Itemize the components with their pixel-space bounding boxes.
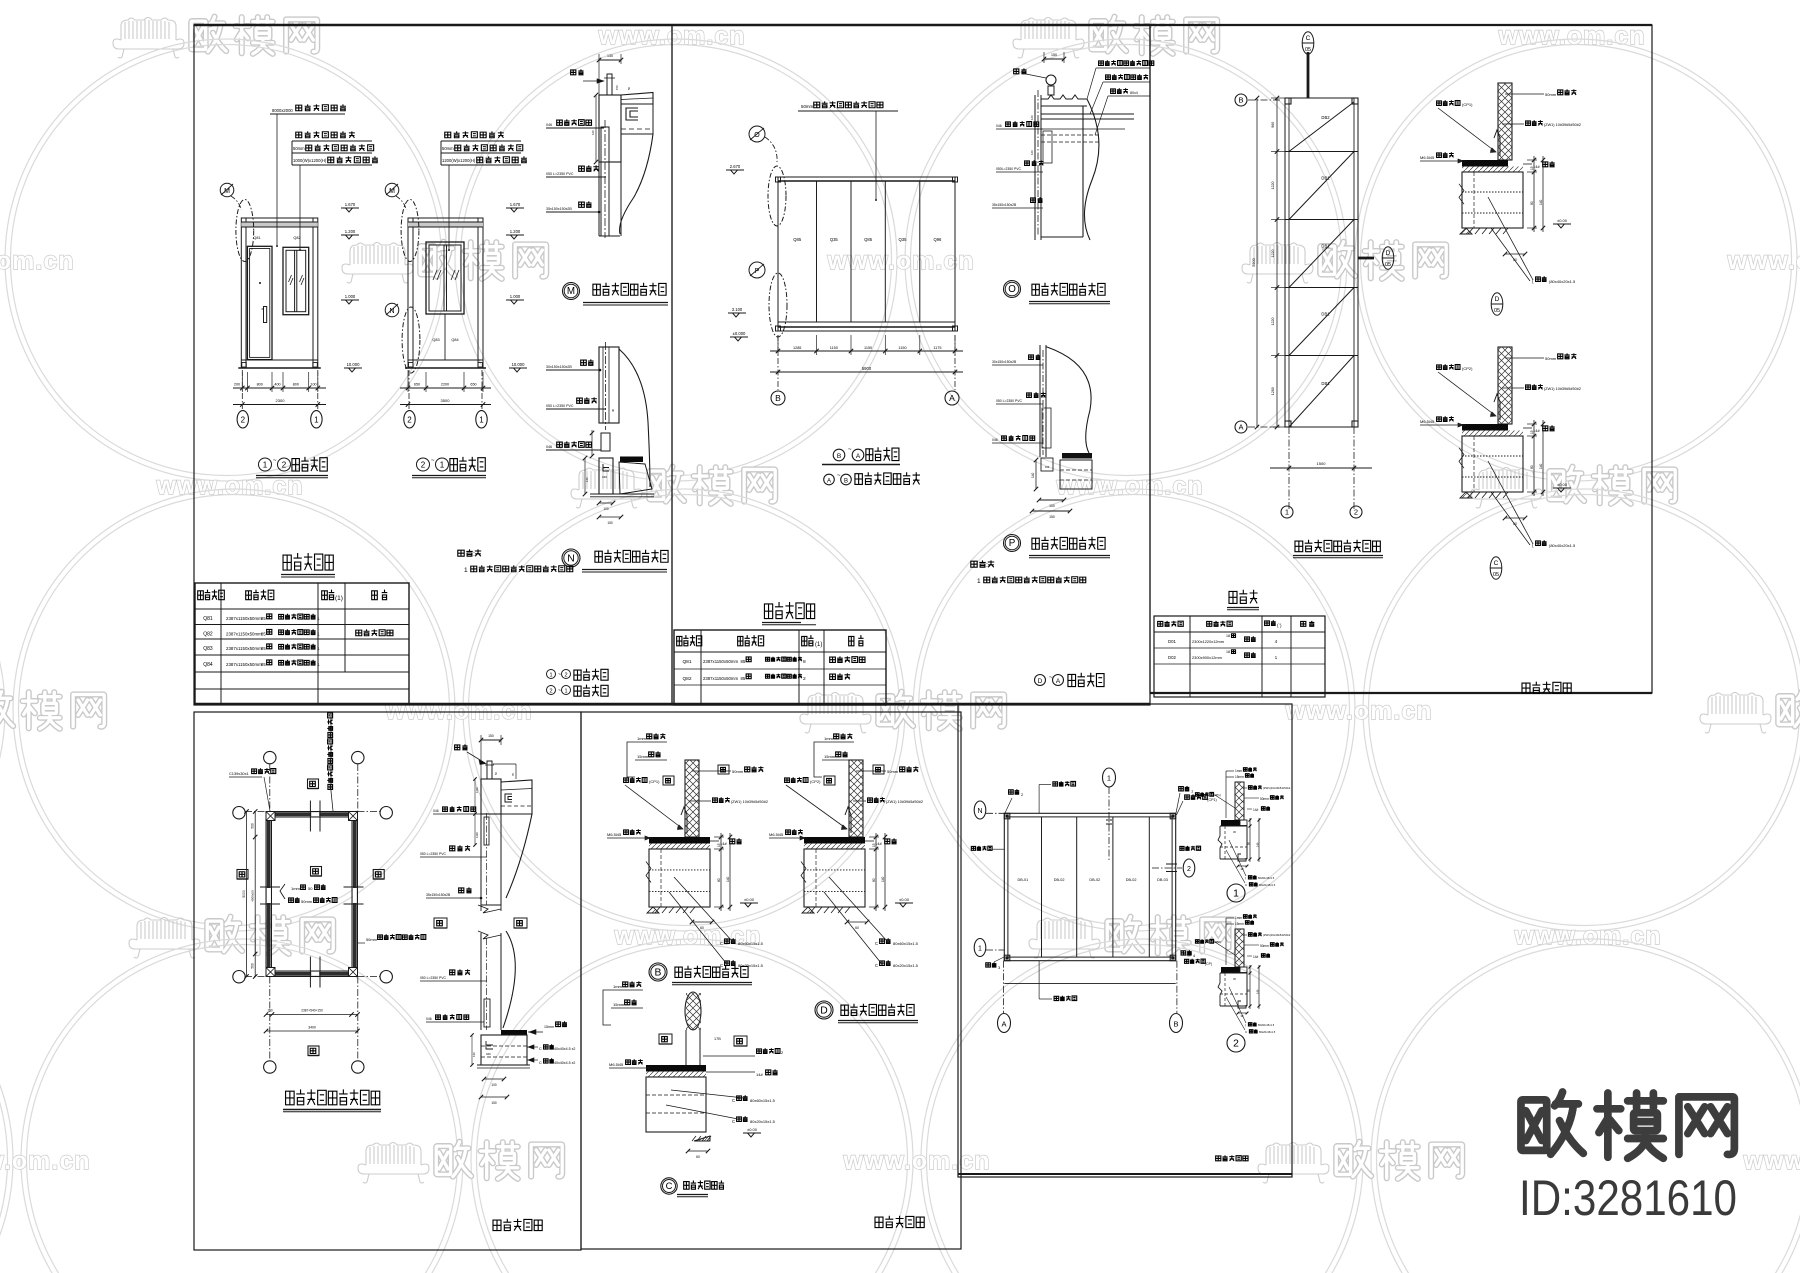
svg-text:1.200: 1.200: [510, 229, 521, 234]
panel2: corner downpipe detail P (bottom right): [992, 345, 1110, 558]
svg-text:D02: D02: [1168, 655, 1176, 660]
svg-text:Q82: Q82: [203, 632, 213, 638]
svg-text:Q85: Q85: [793, 237, 802, 242]
svg-text:5000: 5000: [242, 890, 246, 898]
svg-text:50mm: 50mm: [887, 769, 899, 774]
svg-text:60: 60: [700, 926, 704, 930]
svg-text:(`): (`): [1277, 623, 1282, 628]
panel6: leader labels: [1009, 789, 1020, 794]
svg-text:D01: D01: [1168, 639, 1176, 644]
svg-text:15: 15: [1530, 166, 1534, 170]
svg-text:100: 100: [603, 507, 609, 511]
svg-text:DB-02: DB-02: [1089, 878, 1100, 882]
svg-text:60: 60: [855, 926, 859, 930]
svg-text:85: 85: [261, 632, 266, 637]
svg-text:(CP): (CP): [1205, 962, 1212, 966]
svg-text:140: 140: [726, 876, 730, 882]
svg-text:B: B: [1173, 1020, 1178, 1029]
svg-text:40x40x4.5 x2: 40x40x4.5 x2: [554, 1061, 575, 1065]
panel1: detail M corner post: [599, 95, 621, 162]
node detail at 1462,160: [1420, 83, 1581, 262]
svg-text:M6.5l45: M6.5l45: [1420, 155, 1435, 160]
svg-text:(CP2): (CP2): [1462, 366, 1473, 371]
svg-text:~: ~: [431, 458, 435, 464]
svg-text:3.100: 3.100: [732, 307, 743, 312]
svg-text:1200: 1200: [475, 832, 479, 838]
panel1: corner downpipe detail M (top right): [546, 54, 668, 305]
svg-text:C: C: [539, 1061, 542, 1065]
panel4: thick wall bands: [267, 821, 271, 968]
svg-text:3500: 3500: [441, 398, 451, 403]
svg-text:15mm: 15mm: [613, 1002, 625, 1007]
panel2: detail P base: [1062, 453, 1092, 459]
svg-text:1: 1: [1107, 774, 1111, 783]
svg-text:120: 120: [591, 130, 595, 135]
svg-text:500: 500: [251, 963, 255, 969]
svg-text:35x150x150x2B: 35x150x150x2B: [546, 207, 572, 211]
svg-text:15mm: 15mm: [637, 754, 649, 759]
svg-text:O: O: [1008, 284, 1016, 295]
svg-text:15mm: 15mm: [1235, 775, 1244, 779]
svg-text:B: B: [775, 393, 781, 403]
svg-text:1: 1: [1285, 508, 1289, 517]
panel1: detail callout M: [220, 183, 234, 197]
svg-text:DB1: DB1: [1321, 312, 1330, 317]
svg-text:140: 140: [1539, 463, 1543, 469]
svg-text:2: 2: [241, 415, 246, 424]
svg-text:DB2: DB2: [1321, 115, 1330, 120]
svg-text:050 L=2350 PVC: 050 L=2350 PVC: [420, 852, 446, 856]
svg-text:1: 1: [440, 461, 445, 470]
svg-text:N: N: [977, 808, 982, 815]
svg-text:DB-02: DB-02: [1054, 878, 1065, 882]
svg-text:2: 2: [421, 461, 426, 470]
svg-text:2387x1150x50mm: 2387x1150x50mm: [226, 662, 262, 667]
svg-text:(ZW1)10x39x54x50x2: (ZW1)10x39x54x50x2: [1263, 933, 1291, 937]
svg-text:1mm: 1mm: [824, 736, 834, 741]
svg-text:1mm: 1mm: [613, 984, 623, 989]
panel2: dims below: [770, 350, 963, 352]
svg-text:B: B: [844, 479, 848, 485]
svg-text:15mm: 15mm: [1235, 922, 1244, 926]
svg-text:2300: 2300: [276, 398, 286, 403]
svg-text:800: 800: [257, 383, 263, 387]
svg-text:Q82: Q82: [293, 236, 300, 240]
svg-text:8: 8: [803, 659, 806, 665]
svg-text:1200: 1200: [475, 787, 479, 793]
svg-text:1150: 1150: [830, 346, 838, 350]
svg-text:M6.5l45: M6.5l45: [769, 832, 784, 837]
svg-text:(CP1): (CP1): [649, 779, 660, 784]
svg-text:1000(W)x1200(H): 1000(W)x1200(H): [293, 158, 327, 163]
svg-text:M6.5l45: M6.5l45: [1420, 419, 1435, 424]
svg-text:DB1: DB1: [1321, 176, 1330, 181]
svg-text:500: 500: [251, 823, 255, 829]
svg-text:1: 1: [479, 415, 484, 424]
svg-text:50mm: 50mm: [801, 104, 814, 109]
svg-text:C: C: [732, 1098, 735, 1103]
svg-text:Q84: Q84: [203, 662, 213, 668]
panel5: node detail C door sill: [603, 981, 784, 1196]
svg-text:150: 150: [607, 521, 613, 525]
svg-text:046: 046: [426, 1017, 432, 1021]
panel4: boxed labels: [308, 779, 319, 789]
panel4: dims: [254, 812, 256, 977]
svg-text:Q96: Q96: [933, 237, 942, 242]
svg-text:140: 140: [1539, 199, 1543, 205]
svg-text:N: N: [567, 553, 574, 564]
panel2: corner downpipe detail O (top right): [992, 52, 1154, 304]
svg-text:80x60x15x1.5: 80x60x15x1.5: [738, 941, 764, 946]
svg-text:35x150x150x2B: 35x150x150x2B: [426, 893, 451, 897]
svg-text:D: D: [820, 1005, 827, 1016]
svg-text:DB-03: DB-03: [1157, 878, 1168, 882]
svg-text:(ZW1) 10#39#5#50#2: (ZW1) 10#39#5#50#2: [1544, 123, 1581, 127]
svg-text:50mm: 50mm: [1545, 92, 1557, 97]
svg-text:A: A: [856, 453, 861, 460]
svg-text:1mm: 1mm: [1235, 769, 1242, 773]
svg-text:1: 1: [549, 673, 552, 679]
svg-text:100: 100: [1049, 504, 1055, 508]
svg-text:50mm: 50mm: [442, 146, 454, 151]
svg-text:100: 100: [310, 383, 316, 387]
svg-text:80: 80: [872, 878, 876, 882]
svg-text:1mm: 1mm: [1235, 916, 1242, 920]
svg-text:1: 1: [1233, 888, 1239, 899]
panel1: dims below elevation A: [233, 387, 326, 389]
svg-text:Q84: Q84: [451, 338, 458, 342]
panel1: detail N bottom dims: [599, 502, 613, 504]
panel4: section upper body: [481, 779, 501, 905]
svg-text:(CP1): (CP1): [1462, 102, 1473, 107]
panel1: dims below elevation B: [400, 387, 491, 389]
panel2: callouts O P: [749, 126, 765, 142]
panel1: door elevation 1-2: [220, 104, 378, 477]
svg-text:120: 120: [1030, 115, 1034, 120]
svg-text:2: 2: [407, 415, 412, 424]
svg-text:1: 1: [263, 461, 268, 470]
svg-text:150: 150: [1049, 515, 1055, 519]
svg-text:(ZW1)10x39x54x50x2: (ZW1)10x39x54x50x2: [1263, 786, 1291, 790]
svg-text:046: 046: [433, 809, 439, 813]
panel3: sheet title: [1522, 682, 1571, 693]
svg-text:2200: 2200: [441, 383, 449, 387]
svg-text:150: 150: [267, 1009, 273, 1013]
svg-text:050 L=2350 PVC: 050 L=2350 PVC: [546, 404, 574, 408]
svg-text:50mm: 50mm: [293, 146, 305, 151]
panel1: title 1-2 elevation: [259, 458, 272, 471]
svg-text:140: 140: [585, 477, 589, 482]
svg-text:~: ~: [558, 688, 561, 694]
svg-text:(1): (1): [815, 642, 822, 648]
svg-text:8000x2000: 8000x2000: [272, 108, 293, 113]
panel4: section base: [501, 1030, 527, 1035]
svg-text:50mm: 50mm: [732, 769, 744, 774]
node detail at 1462,424: [1420, 347, 1581, 526]
panel5: label D title: [815, 1001, 833, 1019]
svg-text:50mm: 50mm: [366, 937, 377, 942]
svg-text:14#: 14#: [1253, 955, 1259, 959]
svg-text:18: 18: [1226, 650, 1230, 654]
svg-text:1: 1: [317, 662, 320, 668]
svg-text:C: C: [666, 1180, 673, 1191]
svg-text:M: M: [567, 286, 575, 297]
svg-text:17B: 17B: [714, 1037, 721, 1041]
svg-text:50mm: 50mm: [1260, 797, 1269, 801]
svg-text:1150: 1150: [898, 346, 906, 350]
svg-text:B: B: [655, 967, 662, 978]
svg-text:50mm: 50mm: [1545, 356, 1557, 361]
svg-text:1150: 1150: [864, 346, 872, 350]
svg-text:Q83: Q83: [432, 338, 439, 342]
svg-text:046: 046: [546, 123, 552, 127]
svg-text:2: 2: [549, 689, 552, 695]
svg-text:050 L=2350 PVC: 050 L=2350 PVC: [546, 172, 574, 176]
panel2: wall panel material table: [674, 602, 886, 705]
svg-text:140: 140: [472, 1052, 476, 1057]
panel1: label M detail title: [563, 283, 580, 300]
panel1: label N detail title: [562, 549, 580, 567]
svg-text:046: 046: [1045, 465, 1050, 469]
svg-text:2: 2: [803, 676, 806, 682]
svg-text:150: 150: [488, 734, 494, 738]
panel4: corner connection plan: [229, 712, 426, 1112]
svg-text:Q35: Q35: [830, 237, 839, 242]
panel2: detail O right labels: [1099, 60, 1154, 65]
panel6: bottom lines and label: [1004, 982, 1175, 984]
svg-text:120: 120: [1030, 150, 1034, 155]
svg-text:80: 80: [1530, 465, 1534, 469]
svg-text:C: C: [732, 1119, 735, 1124]
svg-text:60: 60: [696, 1155, 700, 1159]
panel1: wall panel material table: [195, 553, 409, 704]
svg-text:~: ~: [273, 458, 277, 464]
svg-text:2: 2: [564, 673, 567, 679]
svg-text:1280: 1280: [1271, 387, 1275, 395]
panel1: callouts M N: [385, 183, 399, 197]
svg-text:B: B: [837, 453, 841, 460]
panel6: corner posts: [1004, 813, 1010, 819]
svg-text:05: 05: [1493, 572, 1499, 578]
panel1: door leaf: [247, 246, 272, 359]
svg-text:1mm: 1mm: [291, 886, 301, 891]
svg-text:2387x1150x50mm: 2387x1150x50mm: [703, 659, 738, 664]
svg-text:2300x1220x12mm: 2300x1220x12mm: [1192, 639, 1224, 644]
svg-text:2: 2: [1187, 866, 1191, 873]
svg-text:1.670: 1.670: [510, 202, 521, 207]
svg-text:2387x1150x50mm: 2387x1150x50mm: [226, 616, 262, 621]
svg-text:05: 05: [1385, 262, 1391, 268]
svg-text:1: 1: [564, 689, 567, 695]
svg-text:D: D: [1038, 678, 1043, 685]
svg-text:(1): (1): [335, 595, 343, 602]
svg-text:M6.5l45: M6.5l45: [609, 1062, 624, 1067]
svg-text:~: ~: [558, 672, 561, 678]
svg-text:P: P: [1009, 538, 1016, 549]
svg-text:Q82: Q82: [682, 676, 691, 682]
svg-text:A: A: [1001, 1020, 1006, 1029]
svg-text:(ZW1) 10#39#5#50#2: (ZW1) 10#39#5#50#2: [886, 800, 923, 804]
svg-text:140: 140: [1256, 842, 1260, 847]
svg-text:150: 150: [1051, 53, 1057, 57]
svg-text:85: 85: [261, 662, 266, 667]
svg-text:50mm: 50mm: [301, 899, 313, 904]
svg-text:C: C: [539, 1047, 542, 1051]
panel2: roof profile zigzag: [1041, 95, 1087, 106]
svg-text:14#: 14#: [1253, 808, 1259, 812]
node detail at 649,837: [607, 733, 768, 968]
svg-text:1220: 1220: [1271, 318, 1275, 326]
svg-text:1: 1: [317, 616, 320, 622]
svg-text:15mm: 15mm: [544, 1025, 554, 1029]
svg-text:046: 046: [546, 445, 552, 449]
panel4: mid boxed labels: [434, 918, 447, 928]
panel1: window: [283, 247, 309, 314]
svg-text:10.000: 10.000: [347, 362, 360, 367]
svg-text:200: 200: [234, 383, 240, 387]
svg-text:5900: 5900: [1252, 258, 1256, 266]
svg-text:Q81: Q81: [203, 616, 213, 622]
svg-text:2: 2: [282, 461, 287, 470]
site logo text bottom right: [1521, 1092, 1734, 1158]
svg-text:80x60x15x1.5: 80x60x15x1.5: [1258, 876, 1275, 880]
panel6: small caption: [1216, 1155, 1248, 1161]
panel4: corner posts: [266, 812, 275, 821]
panel6: mini node detail 1: [1195, 767, 1290, 1161]
svg-text:046: 046: [602, 475, 607, 479]
svg-text:35x150x150x2B: 35x150x150x2B: [992, 203, 1017, 207]
svg-text:±0.00: ±0.00: [1557, 482, 1568, 487]
panel1: corner downpipe detail N (bottom right): [546, 342, 668, 572]
svg-text:85: 85: [741, 676, 746, 681]
panel3: floor plan strip with trusses: [1235, 32, 1394, 558]
svg-text:18: 18: [1226, 634, 1230, 638]
svg-text:(: (: [1245, 876, 1246, 880]
svg-text:C: C: [1494, 560, 1499, 567]
svg-text:046: 046: [486, 1052, 491, 1056]
svg-text:M6.5l45: M6.5l45: [607, 832, 622, 837]
svg-text:15: 15: [1530, 430, 1534, 434]
panel4: axis lines and circles: [245, 811, 266, 813]
svg-text:05: 05: [1494, 308, 1500, 314]
svg-text:Q85: Q85: [864, 237, 873, 242]
svg-text:A: A: [949, 393, 955, 403]
svg-text::: :: [986, 562, 988, 569]
panel5: label B title: [649, 963, 667, 981]
svg-text:C: C: [1306, 35, 1311, 42]
svg-text:50: 50: [308, 886, 313, 891]
panel2: D-A elevation note bottom: [1035, 673, 1105, 687]
svg-text:80x4: 80x4: [1130, 91, 1138, 95]
svg-text:140: 140: [1256, 989, 1260, 994]
svg-text:1mm: 1mm: [637, 736, 647, 741]
svg-text:30x150x150x2B: 30x150x150x2B: [546, 365, 572, 369]
svg-text:130: 130: [607, 54, 613, 58]
panel3: floor board table: [1154, 590, 1325, 697]
panel4: sheet title: [493, 1219, 542, 1231]
svg-text:D: D: [1386, 250, 1391, 257]
svg-text:1285: 1285: [793, 346, 801, 350]
svg-text:80x60x15x1.5: 80x60x15x1.5: [893, 941, 919, 946]
svg-text:(CP2): (CP2): [810, 779, 821, 784]
svg-text:1: 1: [317, 646, 320, 652]
svg-text:14#: 14#: [756, 1072, 763, 1077]
svg-text:80x20x15x1.5: 80x20x15x1.5: [893, 963, 919, 968]
svg-text:)80x40x20x1.5: )80x40x20x1.5: [1549, 543, 1576, 548]
svg-text:85: 85: [261, 646, 266, 651]
svg-text:ID:3281610: ID:3281610: [1519, 1170, 1737, 1226]
svg-text:2387x1150x50mm: 2387x1150x50mm: [226, 646, 262, 651]
svg-text:80x60x15x1.5: 80x60x15x1.5: [1258, 1023, 1275, 1027]
svg-text:046: 046: [996, 124, 1002, 128]
svg-text:1.000: 1.000: [345, 294, 356, 299]
panel1: title 2-1 elevation: [417, 458, 430, 471]
panel4: plan title: [286, 1089, 380, 1104]
svg-text:1220: 1220: [1271, 250, 1275, 258]
svg-text:A: A: [1238, 423, 1243, 432]
svg-text:046: 046: [992, 438, 998, 442]
svg-text:70: 70: [511, 772, 515, 776]
svg-text:650: 650: [470, 383, 476, 387]
svg-text:1.000: 1.000: [510, 294, 521, 299]
svg-text:400: 400: [274, 383, 280, 387]
svg-text:85: 85: [741, 659, 746, 664]
panel1: bottom-right elevation list: [547, 669, 609, 696]
panel5: sheet title: [875, 1216, 924, 1228]
svg-text:15mm: 15mm: [824, 754, 836, 759]
svg-text:DB1: DB1: [1321, 381, 1330, 386]
svg-text:150: 150: [615, 85, 619, 90]
svg-text:(ZW1) 10#39#5#50#2: (ZW1) 10#39#5#50#2: [1544, 387, 1581, 391]
svg-text:80: 80: [717, 878, 721, 882]
svg-text::: :: [473, 551, 475, 558]
svg-text:40: 40: [611, 408, 615, 412]
svg-text:80x20x15x1.5: 80x20x15x1.5: [1259, 883, 1276, 887]
svg-text:1: 1: [978, 946, 982, 953]
svg-text:15: 15: [717, 843, 721, 847]
svg-text:C: C: [875, 963, 878, 968]
svg-text:2: 2: [1233, 1038, 1239, 1049]
panel1: central window elevation B: [426, 242, 464, 314]
svg-text:±0.00: ±0.00: [899, 897, 910, 902]
svg-text:±0.00: ±0.00: [744, 897, 755, 902]
svg-text:50: 50: [627, 86, 631, 90]
svg-text:2387+540+150: 2387+540+150: [301, 1009, 323, 1013]
svg-text:2387x1150x50mm: 2387x1150x50mm: [226, 632, 262, 637]
panel3: bottom dims + axis: [1288, 427, 1290, 510]
svg-text:1: 1: [317, 632, 320, 638]
panel6: axis lines/circles: [986, 812, 1004, 814]
svg-text:80: 80: [1530, 201, 1534, 205]
svg-text:(ZW1) 10#39#5#50#2: (ZW1) 10#39#5#50#2: [731, 800, 768, 804]
svg-text:1: 1: [314, 415, 319, 424]
svg-text:A: A: [1056, 678, 1061, 685]
svg-text:1.670: 1.670: [345, 202, 356, 207]
svg-text:±0.00: ±0.00: [747, 1127, 758, 1132]
svg-text:140: 140: [1031, 472, 1035, 478]
svg-text:960: 960: [1271, 122, 1275, 128]
svg-text:800: 800: [293, 383, 299, 387]
svg-text:85: 85: [261, 616, 266, 621]
svg-text:2300x900x12mm: 2300x900x12mm: [1192, 655, 1222, 660]
svg-text:80x20x15x1.5: 80x20x15x1.5: [738, 963, 764, 968]
panel3: callout C top: [1302, 32, 1314, 54]
svg-text:3400: 3400: [308, 1026, 316, 1030]
svg-text:Q35: Q35: [899, 237, 908, 242]
panel4: mid-wall junctions: [309, 801, 311, 832]
panel1: door elevation 2-1: [385, 131, 527, 477]
panel1: notes text: [458, 549, 573, 574]
